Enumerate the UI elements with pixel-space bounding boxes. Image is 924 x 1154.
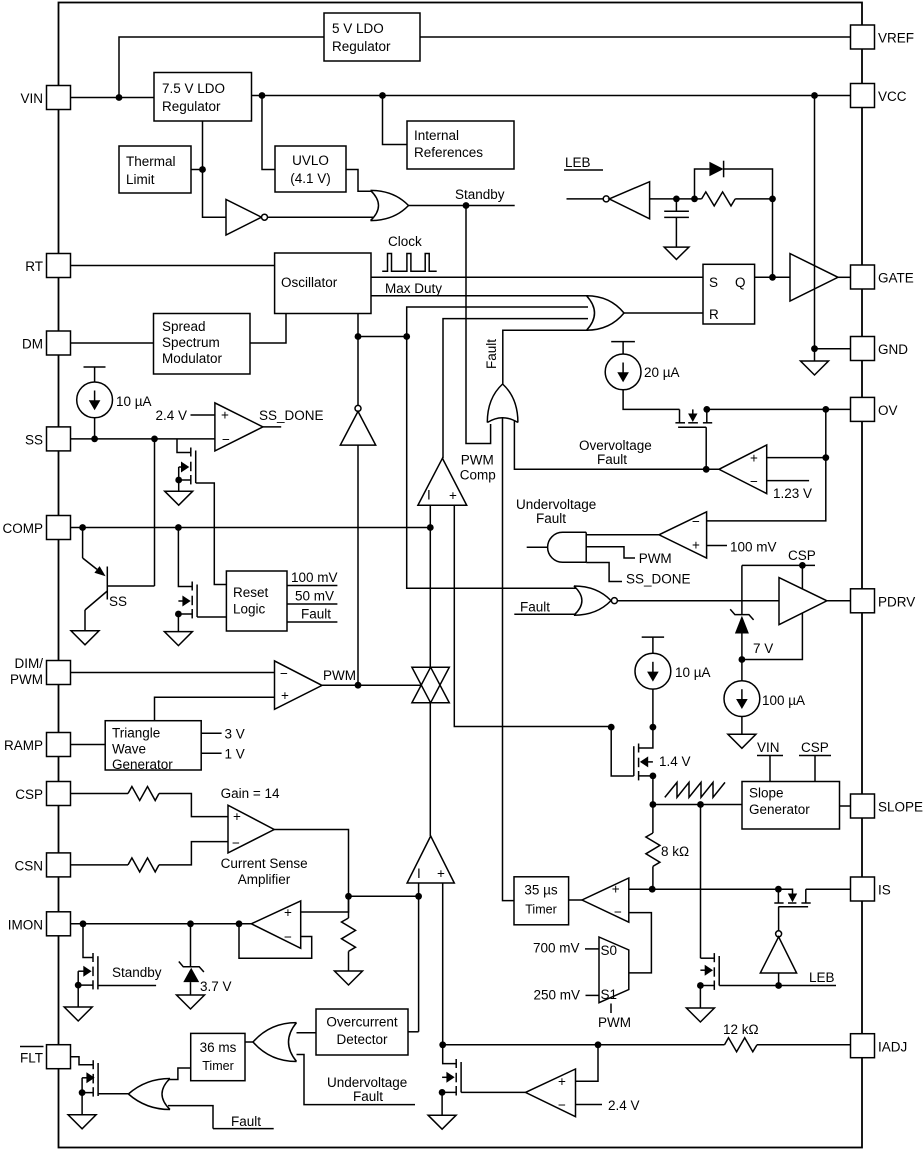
- junction IADJ-comp: [595, 1041, 602, 1048]
- wire IADJ line: [443, 1044, 725, 1046]
- svg-text:COMP: COMP: [3, 521, 44, 536]
- wire OV down to comparator: [825, 409, 827, 457]
- svg-text:Timer: Timer: [525, 903, 556, 917]
- junction VCC-UVLO: [259, 92, 266, 99]
- svg-text:−: −: [232, 836, 240, 851]
- svg-text:Standby: Standby: [112, 965, 162, 980]
- svg-text:+: +: [558, 1074, 566, 1089]
- svg-text:IADJ: IADJ: [878, 1040, 907, 1055]
- sawtooth glyph: [665, 782, 725, 797]
- svg-text:Fault: Fault: [520, 600, 550, 615]
- junction IADJ-FET: [439, 1041, 446, 1048]
- comparator 2.4V IADJ: [526, 1069, 576, 1117]
- transistor OV clamp (rotated NMOS): [675, 409, 712, 469]
- svg-text:100 mV: 100 mV: [730, 540, 777, 555]
- ground IS pulldown: [686, 1008, 714, 1022]
- wire Max Duty to reset OR: [371, 281, 588, 296]
- svg-text:−: −: [692, 514, 700, 529]
- reference 700 mV: [533, 941, 599, 956]
- svg-text:+: +: [449, 488, 457, 503]
- svg-text:SS_DONE: SS_DONE: [259, 408, 324, 423]
- wire slope node: [653, 804, 742, 806]
- svg-text:−: −: [614, 905, 622, 920]
- wire AND input SS_DONE: [586, 563, 690, 587]
- junction SS NMOS source: [175, 477, 182, 484]
- wire triangle wave to comparator plus: [155, 697, 275, 721]
- pin DM: [22, 331, 71, 355]
- junction IMON standby FET: [80, 920, 87, 927]
- wire source to slope node: [652, 776, 654, 805]
- svg-text:Thermal: Thermal: [126, 154, 176, 169]
- wire 2.4V comp plus to IADJ: [576, 1045, 599, 1081]
- svg-text:Spectrum: Spectrum: [162, 335, 220, 350]
- svg-text:VCC: VCC: [878, 89, 907, 104]
- wire IMON feedback loop: [239, 924, 312, 958]
- svg-text:100 mV: 100 mV: [291, 570, 338, 585]
- block UVLO 4.1V: [275, 146, 346, 192]
- junction PWM-inverter: [355, 682, 362, 689]
- net stub Fault reset: [287, 607, 337, 623]
- svg-text:IS: IS: [878, 883, 891, 898]
- wire OD output to OR: [297, 1032, 317, 1034]
- svg-text:SLOPE: SLOPE: [878, 800, 923, 815]
- svg-text:Reset: Reset: [233, 585, 269, 600]
- block Overcurrent Detector: [316, 1009, 408, 1055]
- ground standby NMOS: [64, 1007, 92, 1021]
- ground zener: [177, 995, 205, 1009]
- wire DM to modulator: [71, 342, 154, 344]
- svg-text:Fault: Fault: [536, 511, 566, 526]
- wire driver to GATE pin: [838, 276, 851, 278]
- pin CSN: [14, 853, 70, 877]
- wire LEB input: [567, 198, 604, 200]
- ground IMON resistor: [335, 971, 363, 985]
- label PWM Comp: [460, 453, 496, 483]
- svg-text:10 µA: 10 µA: [116, 394, 152, 409]
- pin IS: [851, 877, 891, 901]
- net label Fault (rotated): [484, 339, 499, 369]
- pin COMP: [3, 516, 71, 540]
- amplifier current sense: [228, 805, 274, 853]
- block 5V LDO Regulator: [324, 13, 420, 61]
- pin VCC: [851, 84, 907, 108]
- wire CSN with resistor: [71, 842, 229, 872]
- wire RAMP to generator: [71, 744, 106, 746]
- svg-text:Max Duty: Max Duty: [385, 281, 442, 296]
- wire fault OR output to reset OR input4: [503, 330, 588, 384]
- net label CSP supply: [742, 548, 816, 565]
- resistor 12k: [723, 1022, 851, 1052]
- wire 7.5V LDO to VCC: [252, 95, 851, 97]
- svg-text:3.7 V: 3.7 V: [200, 979, 232, 994]
- wire IS FET to IS pin: [806, 888, 851, 890]
- wire FLT OR fault input: [168, 1106, 213, 1129]
- svg-text:VIN: VIN: [20, 91, 43, 106]
- svg-text:35 µs: 35 µs: [524, 883, 558, 898]
- junction GND node: [811, 345, 818, 352]
- ground SS NMOS: [165, 491, 193, 505]
- wire modulator to oscillator: [250, 314, 286, 344]
- wire standby down to fault OR: [466, 206, 491, 444]
- svg-text:Undervoltage: Undervoltage: [327, 1075, 407, 1090]
- transistor FLT NMOS: [82, 1060, 128, 1115]
- wire 10uA to 1.4V FET: [652, 689, 654, 727]
- inverter LEB bottom (pointing up): [760, 931, 796, 986]
- svg-text:SS: SS: [25, 433, 43, 448]
- block Thermal Limit: [119, 146, 191, 193]
- wire NOR to PDRV driver: [617, 600, 779, 602]
- label Overvoltage Fault: [579, 438, 652, 467]
- mux threshold select: [599, 937, 629, 1003]
- svg-text:Fault: Fault: [353, 1089, 383, 1104]
- svg-text:−: −: [558, 1098, 566, 1113]
- wire latch Q to gate driver: [755, 276, 790, 278]
- svg-text:RAMP: RAMP: [4, 738, 43, 753]
- wire divider to reset OR input2: [407, 307, 588, 337]
- diode LEB: [709, 161, 723, 178]
- wire LEB line: [719, 970, 836, 986]
- junction standby: [463, 202, 470, 209]
- reference 250 mV: [534, 988, 600, 1003]
- svg-text:Generator: Generator: [112, 757, 173, 772]
- svg-text:Limit: Limit: [126, 172, 155, 187]
- wire PWM net: [322, 668, 421, 685]
- svg-text:Amplifier: Amplifier: [238, 872, 291, 887]
- svg-text:−: −: [280, 666, 288, 681]
- junction 1.4V source: [650, 773, 657, 780]
- svg-text:Q: Q: [735, 275, 746, 290]
- buffer IMON: [251, 901, 300, 948]
- pin GATE: [851, 265, 914, 289]
- transmission gate PWM: [412, 667, 449, 703]
- svg-text:UVLO: UVLO: [292, 153, 329, 168]
- wire UVLO to OR: [346, 170, 372, 192]
- wire fault OR right input from OV comparator: [514, 421, 719, 469]
- wire 10uA to SS line: [94, 418, 96, 439]
- wire AND output stub: [527, 546, 548, 548]
- resistor IMON gain: [342, 896, 356, 971]
- pin DIM/PWM: [10, 656, 71, 687]
- wire PWM comparator output to reset OR input3: [443, 319, 588, 459]
- wire CSP down to zener: [741, 565, 743, 614]
- OR gate reset (4-input): [587, 296, 625, 331]
- svg-text:Fault: Fault: [597, 452, 627, 467]
- wire divider cross: [358, 336, 407, 338]
- ground IADJ clamp: [428, 1115, 456, 1129]
- svg-text:CSP: CSP: [15, 787, 43, 802]
- current source 20uA: [605, 342, 679, 390]
- svg-text:Triangle: Triangle: [112, 726, 160, 741]
- clock waveform glyph: [382, 234, 436, 271]
- OR gate fault (pointing up): [487, 384, 518, 423]
- wire OV transistor to OV pin: [707, 408, 851, 410]
- transistor SS clamp BJT: [83, 439, 155, 631]
- junction zener-100uA: [739, 656, 746, 663]
- comparator SS_DONE: [215, 403, 263, 451]
- svg-text:700 mV: 700 mV: [533, 941, 580, 956]
- wire oscillator divider node: [357, 314, 359, 337]
- wire 5V LDO to VREF: [420, 36, 851, 38]
- svg-text:VIN: VIN: [757, 740, 780, 755]
- svg-text:250 mV: 250 mV: [534, 988, 581, 1003]
- svg-text:Detector: Detector: [336, 1032, 388, 1047]
- svg-text:5 V LDO: 5 V LDO: [332, 21, 384, 36]
- junction OV comp output gate: [703, 466, 710, 473]
- svg-text:VREF: VREF: [878, 31, 914, 46]
- junction slope-ISFET: [697, 801, 704, 808]
- svg-text:Regulator: Regulator: [332, 39, 391, 54]
- ground SS BJT: [71, 631, 99, 645]
- block Oscillator: [275, 253, 371, 314]
- wire diode branch up: [695, 169, 710, 199]
- wire CSA output: [274, 830, 348, 897]
- wire 20uA to OV transistor: [623, 390, 679, 410]
- wire comp2 I down to overcurrent: [408, 883, 419, 1032]
- junction LEB-R right: [769, 196, 776, 203]
- svg-text:1 V: 1 V: [225, 747, 245, 762]
- svg-text:+: +: [221, 408, 229, 423]
- svg-text:50 mV: 50 mV: [295, 589, 334, 604]
- OR gate FLT (pointing left): [128, 1079, 170, 1110]
- junction COMP-BJT: [79, 524, 86, 531]
- zener 7V: [730, 609, 773, 659]
- comparator undervoltage: [659, 512, 707, 558]
- junction divider left: [355, 333, 362, 340]
- inverter thermal/standby: [226, 200, 268, 236]
- svg-text:Overvoltage: Overvoltage: [579, 438, 652, 453]
- svg-text:Undervoltage: Undervoltage: [516, 497, 596, 512]
- junction LEB diode branch: [691, 196, 698, 203]
- reference 2.4V IADJ: [576, 1098, 640, 1113]
- junction SS-BJT base: [151, 436, 158, 443]
- current source 10uA slope: [635, 637, 711, 689]
- block 36 ms Timer: [191, 1033, 245, 1080]
- wire slope sum to PWM comp plus: [454, 505, 611, 726]
- pin RT: [25, 254, 70, 278]
- svg-text:Oscillator: Oscillator: [281, 275, 338, 290]
- svg-text:3 V: 3 V: [225, 727, 245, 742]
- ground 100uA: [728, 734, 756, 748]
- svg-text:Overcurrent: Overcurrent: [326, 1015, 398, 1030]
- label Undervoltage Fault center: [516, 497, 596, 526]
- inverter PWM-up: [340, 337, 375, 686]
- wire 7.5V LDO bottom to inverter: [203, 121, 227, 217]
- svg-text:Internal: Internal: [414, 128, 459, 143]
- block 7.5V LDO Regulator: [154, 73, 252, 122]
- svg-text:Spread: Spread: [162, 319, 206, 334]
- junction OV comp plus: [822, 454, 829, 461]
- pin GND: [851, 337, 909, 361]
- junction VCC-IntRef: [379, 92, 386, 99]
- NOR gate PDRV: [574, 586, 618, 615]
- current source 100uA: [724, 660, 805, 717]
- pin SS: [25, 427, 71, 451]
- pin RAMP: [4, 733, 71, 757]
- svg-text:I: I: [427, 488, 431, 503]
- svg-text:PWM: PWM: [323, 668, 356, 683]
- pin IADJ: [851, 1034, 908, 1058]
- comparator 35us: [582, 878, 629, 922]
- junction SS-10uA: [91, 436, 98, 443]
- svg-text:+: +: [233, 809, 241, 824]
- ground reset NMOS: [164, 632, 192, 646]
- svg-text:SS: SS: [109, 594, 127, 609]
- pin OV: [851, 397, 898, 421]
- svg-text:8 kΩ: 8 kΩ: [661, 844, 689, 859]
- wire IMON line: [71, 923, 252, 925]
- svg-text:20 µA: 20 µA: [644, 365, 680, 380]
- wire SS line: [71, 438, 215, 440]
- wire LEB inverter output: [650, 198, 702, 200]
- wire slope generator to SLOPE pin: [840, 805, 851, 807]
- svg-text:2.4 V: 2.4 V: [155, 408, 187, 423]
- wire 35us comp plus input: [629, 888, 652, 890]
- svg-text:LEB: LEB: [809, 970, 835, 985]
- wire timer to FLT OR: [168, 1068, 191, 1080]
- wire driver to PDRV pin: [827, 600, 851, 602]
- buffer gate driver: [790, 254, 838, 301]
- svg-text:R: R: [709, 307, 719, 322]
- svg-text:−: −: [284, 930, 292, 945]
- wire OR to 36ms timer: [245, 1041, 253, 1043]
- wire UV fault to OR input: [297, 1055, 416, 1105]
- pin CSP: [15, 782, 70, 806]
- svg-text:PWM: PWM: [10, 672, 43, 687]
- junction CSA node: [345, 893, 352, 900]
- block Triangle Wave Generator: [105, 721, 201, 772]
- transistor IS pulldown NMOS: [700, 805, 719, 1009]
- svg-text:+: +: [750, 451, 758, 466]
- wire VIN up to 5V LDO: [119, 37, 324, 98]
- block Internal References: [407, 121, 514, 169]
- svg-text:PWM: PWM: [598, 1015, 631, 1030]
- junction divider right: [403, 333, 410, 340]
- reference 100mV UV: [707, 540, 777, 555]
- svg-text:Standby: Standby: [455, 187, 505, 202]
- svg-text:Fault: Fault: [301, 607, 331, 622]
- wire reset OR to latch R: [624, 312, 703, 314]
- buffer PDRV driver: [779, 578, 827, 625]
- reference 2.4V SS: [155, 408, 214, 423]
- wire FLT pin to NMOS: [71, 1057, 94, 1065]
- reference 50 mV reset: [287, 589, 337, 605]
- wire 35us comp minus to mux: [629, 913, 652, 973]
- svg-text:12 kΩ: 12 kΩ: [723, 1022, 759, 1037]
- junction FLT source: [79, 1089, 86, 1096]
- comparator overvoltage: [719, 445, 767, 494]
- transistor standby NMOS: [78, 924, 156, 1007]
- svg-text:GATE: GATE: [878, 271, 914, 286]
- svg-text:S1: S1: [601, 987, 618, 1002]
- block Reset Logic: [226, 571, 287, 631]
- svg-text:36 ms: 36 ms: [200, 1040, 237, 1055]
- junction slope-8k: [650, 801, 657, 808]
- wire IMON buffer plus: [301, 896, 349, 912]
- svg-text:S0: S0: [601, 943, 618, 958]
- comparator PWM comp: [418, 458, 467, 505]
- reference 3V: [201, 727, 245, 742]
- AND gate undervoltage fault (pointing left): [548, 532, 587, 562]
- wire COMP line: [71, 527, 432, 529]
- wire IS sense line: [652, 888, 778, 890]
- svg-text:Gain = 14: Gain = 14: [221, 786, 280, 801]
- wire GND node to pin: [815, 348, 851, 350]
- zener 3.7V: [179, 924, 232, 995]
- transistor IADJ clamp NMOS: [442, 1045, 525, 1115]
- svg-text:IMON: IMON: [8, 918, 43, 933]
- svg-text:Regulator: Regulator: [162, 99, 221, 114]
- svg-text:+: +: [692, 538, 700, 553]
- junction VCC rail top: [811, 92, 818, 99]
- junction reset NMOS source: [175, 611, 182, 618]
- junction thermal-LDO: [199, 166, 206, 173]
- junction IMON zener: [187, 920, 194, 927]
- junction IMON feedback: [236, 920, 243, 927]
- svg-text:Generator: Generator: [749, 802, 810, 817]
- svg-text:LEB: LEB: [565, 155, 591, 170]
- wire VIN to 7.5V LDO: [71, 97, 155, 99]
- pin IMON: [8, 912, 71, 936]
- svg-text:100 µA: 100 µA: [762, 693, 805, 708]
- junction COMP-PWMcomp: [427, 524, 434, 531]
- svg-text:+: +: [612, 882, 620, 897]
- block 35 us Timer: [514, 877, 569, 925]
- net stub Fault FLT: [213, 1114, 274, 1129]
- svg-text:I: I: [417, 866, 421, 881]
- junction VIN branch: [116, 94, 123, 101]
- wire CSA node to comparator I: [349, 895, 419, 897]
- svg-text:Modulator: Modulator: [162, 351, 223, 366]
- wire CSP with resistor: [71, 787, 229, 817]
- svg-text:Slope: Slope: [749, 786, 784, 801]
- svg-text:+: +: [284, 905, 292, 920]
- wire UV comp output to AND: [586, 534, 659, 536]
- transistor reset NMOS: [178, 528, 226, 632]
- resistor 8k: [646, 805, 689, 890]
- junction LEB line: [775, 982, 782, 989]
- pin FLT (active low): [20, 1045, 71, 1069]
- transistor 1.4V source follower: [611, 727, 690, 780]
- wire OV comp plus input: [767, 457, 826, 459]
- svg-text:7 V: 7 V: [753, 641, 773, 656]
- svg-text:SS_DONE: SS_DONE: [626, 572, 691, 587]
- svg-text:−: −: [222, 432, 230, 447]
- junction OV pin branch: [822, 406, 829, 413]
- ground LEB cap: [664, 247, 689, 259]
- latch SR: [703, 264, 755, 324]
- svg-text:Fault: Fault: [231, 1114, 261, 1129]
- wire OV node to UV comp minus: [707, 458, 826, 521]
- junction standby source: [75, 982, 82, 989]
- svg-text:Wave: Wave: [112, 742, 146, 757]
- svg-text:+: +: [281, 688, 289, 703]
- pin VIN: [20, 86, 70, 110]
- wire comp2 plus down to IADJ: [442, 883, 444, 1045]
- net label LEB (top): [564, 155, 603, 170]
- ground below gate driver: [801, 349, 829, 375]
- transistor SS discharge NMOS: [177, 439, 226, 585]
- junction IS pulldown source: [697, 982, 704, 989]
- net label VIN slope: [757, 740, 783, 782]
- wire 100uA to ground: [741, 717, 743, 735]
- svg-text:Fault: Fault: [484, 339, 499, 369]
- svg-text:DM: DM: [22, 337, 43, 352]
- wire AND input PWM: [586, 547, 672, 566]
- wire CSP to driver top: [801, 565, 803, 589]
- svg-text:DIM/: DIM/: [15, 656, 44, 671]
- net label CSP slope: [799, 740, 831, 782]
- svg-text:References: References: [414, 145, 483, 160]
